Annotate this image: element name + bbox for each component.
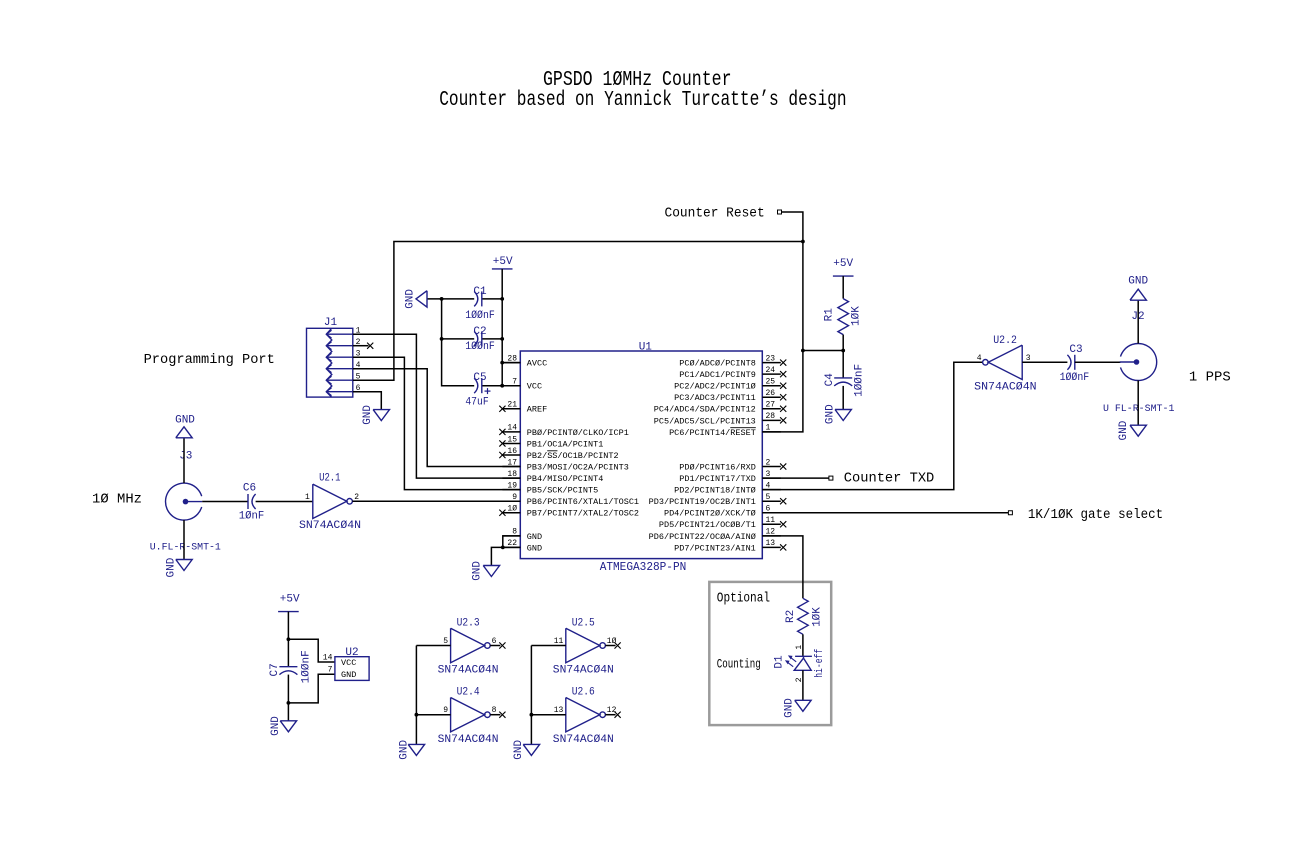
- connector J1 pin sawtooth: [326, 328, 332, 397]
- wire RESET vertical to U1 pin1: [762, 242, 803, 432]
- wire U2 GND pin7 to C7 bottom node: [288, 674, 335, 703]
- svg-text:11: 11: [766, 516, 776, 525]
- svg-text:7: 7: [328, 666, 333, 675]
- open square on Counter TXD label: [829, 476, 833, 480]
- svg-text:14: 14: [507, 424, 517, 433]
- wire U1 TXD pin3 to label: [762, 477, 829, 479]
- svg-text:Counting: Counting: [717, 658, 761, 672]
- svg-text:1ØK: 1ØK: [850, 306, 862, 326]
- wire U1 GND to ground symbol: [491, 547, 502, 565]
- svg-text:11: 11: [554, 637, 564, 646]
- pin 1 (PC6/PCINT14/RESET) of U1: [669, 424, 781, 438]
- svg-text:R1: R1: [823, 308, 835, 322]
- svg-text:GND: GND: [175, 414, 195, 426]
- resistor R1: [838, 299, 849, 335]
- connector J2 BNC body: [1120, 344, 1157, 381]
- wire J1 pin3 to U1 SCK pin19: [353, 357, 521, 489]
- svg-text:1ØØnF: 1ØØnF: [1060, 372, 1090, 384]
- svg-text:47uF: 47uF: [465, 397, 488, 409]
- wire J1 pin1 to U1 MISO pin18: [353, 334, 521, 478]
- svg-text:U1: U1: [639, 342, 653, 354]
- pin 21 (AREF) of U1: [499, 401, 547, 415]
- wire spare inverter inputs to ground: [415, 646, 417, 745]
- svg-text:U2.2: U2.2: [993, 335, 1017, 347]
- junction +5V rail at VCC: [500, 384, 504, 388]
- wire +5V to C7 node: [287, 612, 289, 640]
- svg-text:GND: GND: [472, 561, 484, 581]
- svg-text:GND: GND: [270, 716, 282, 736]
- wire Counter Reset label to RESET vertical: [782, 212, 803, 242]
- no-connect X on J1 pin2: [353, 343, 374, 349]
- svg-text:PD5/PCINT21/OCØB/T1: PD5/PCINT21/OCØB/T1: [659, 520, 756, 530]
- svg-text:U2.5: U2.5: [572, 617, 595, 629]
- svg-text:Counter TXD: Counter TXD: [844, 471, 935, 486]
- ground symbol below J2: [1130, 425, 1146, 436]
- wire J1 pin6 to ground: [353, 392, 382, 410]
- resistor R2: [798, 598, 809, 634]
- svg-text:1Ø MHz: 1Ø MHz: [92, 493, 142, 508]
- svg-text:8: 8: [492, 706, 497, 715]
- capacitor C4: [834, 378, 852, 386]
- pin 7 (GND) of U2: [328, 666, 357, 681]
- svg-text:PCØ/ADCØ/PCINT8: PCØ/ADCØ/PCINT8: [679, 359, 756, 369]
- svg-text:1ØK: 1ØK: [812, 607, 824, 627]
- svg-text:PC1/ADC1/PCINT9: PC1/ADC1/PCINT9: [679, 370, 756, 380]
- pin 4 of J1: [326, 361, 360, 373]
- pin 6 of J1: [326, 384, 360, 396]
- IC U2 power unit body: [335, 657, 369, 681]
- svg-text:+5V: +5V: [833, 258, 853, 270]
- svg-text:SN74ACØ4N: SN74ACØ4N: [974, 382, 1036, 394]
- svg-text:U2.6: U2.6: [572, 687, 595, 699]
- pin 13 (PD7/PCINT23/AIN1) of U1: [674, 539, 786, 553]
- capacitor C6: [248, 494, 256, 509]
- svg-text:1 PPS: 1 PPS: [1189, 370, 1231, 385]
- wire J2 bottom to ground: [1137, 381, 1139, 426]
- svg-text:1Ø: 1Ø: [607, 637, 617, 646]
- wire J1 pin5 to RESET net: [353, 242, 803, 381]
- svg-text:PD1/PCINT17/TXD: PD1/PCINT17/TXD: [679, 474, 756, 484]
- wire C5 row right to U1 VCC: [482, 385, 521, 387]
- ground symbol below C4: [835, 410, 851, 421]
- wire U1 PD6 pin12 to R2: [762, 536, 803, 598]
- svg-text:15: 15: [507, 435, 517, 444]
- svg-text:GND: GND: [527, 532, 542, 542]
- svg-text:C6: C6: [243, 483, 256, 495]
- svg-text:PDØ/PCINT16/RXD: PDØ/PCINT16/RXD: [679, 462, 756, 472]
- wire C3 to J2: [1075, 361, 1121, 363]
- ground symbol below D1: [795, 700, 811, 711]
- svg-text:27: 27: [766, 401, 776, 410]
- LED D1: [785, 655, 812, 670]
- svg-text:SN74ACØ4N: SN74ACØ4N: [299, 520, 361, 532]
- ground symbol above J2 (up): [1130, 289, 1146, 300]
- wire +5V to R1: [842, 276, 844, 299]
- wire R2 to D1: [802, 634, 804, 656]
- capacitor C3: [1067, 355, 1074, 370]
- ground symbol below J3: [176, 560, 192, 571]
- svg-text:PBØ/PCINTØ/CLKO/ICP1: PBØ/PCINTØ/CLKO/ICP1: [527, 428, 629, 438]
- svg-text:PB7/PCINT7/XTAL2/TOSC2: PB7/PCINT7/XTAL2/TOSC2: [527, 509, 639, 519]
- pin 2 of J1: [326, 338, 360, 350]
- power symbol +5V above C1: [492, 268, 513, 270]
- svg-text:1K/1ØK gate select: 1K/1ØK gate select: [1028, 508, 1163, 523]
- ground symbol left of C1: [416, 291, 427, 307]
- svg-text:PD6/PCINT22/OCØA/AINØ: PD6/PCINT22/OCØA/AINØ: [649, 532, 756, 542]
- svg-text:GND: GND: [165, 557, 177, 577]
- wire node to C4: [842, 351, 844, 378]
- svg-text:PB4/MISO/PCINT4: PB4/MISO/PCINT4: [527, 474, 604, 484]
- ground symbol below spare inverters: [408, 744, 424, 755]
- svg-text:26: 26: [766, 389, 776, 398]
- optional group box: [709, 582, 831, 725]
- wire input of U2.4: [416, 714, 450, 716]
- svg-text:hi-eff: hi-eff: [814, 649, 826, 678]
- connector J3 BNC body: [166, 483, 203, 520]
- pin 11 (PD5/PCINT21/OC0B/T1) of U1: [659, 516, 786, 530]
- pin 3 (PD1/PCINT17/TXD) of U1: [679, 470, 781, 484]
- inverter U2.3: [451, 628, 491, 662]
- svg-text:GND: GND: [1128, 275, 1148, 287]
- wire ground rail left of caps: [427, 298, 474, 300]
- wire J3 to C6: [202, 501, 248, 503]
- svg-text:1ØØnF: 1ØØnF: [465, 341, 495, 353]
- wire +5V rail vertical: [501, 269, 503, 386]
- pin 3 of J1: [326, 350, 360, 362]
- svg-text:Counter Reset: Counter Reset: [665, 207, 765, 222]
- wire U1 INT0 pin4 to U2.2 output: [762, 362, 982, 489]
- svg-text:PD7/PCINT23/AIN1: PD7/PCINT23/AIN1: [674, 543, 756, 553]
- pin 5 of J1: [326, 373, 360, 385]
- junction on RESET vertical at R1 branch: [801, 349, 805, 353]
- power symbol +5V above R1: [833, 275, 854, 277]
- svg-text:R2: R2: [785, 610, 797, 623]
- wire C6 to U2.1 input: [256, 501, 313, 503]
- svg-text:PC2/ADC2/PCINT1Ø: PC2/ADC2/PCINT1Ø: [674, 382, 756, 392]
- svg-text:GND: GND: [1118, 420, 1130, 440]
- svg-text:GND: GND: [341, 670, 356, 680]
- wire input of U2.6: [531, 714, 565, 716]
- svg-text:U.FL-R-SMT-1: U.FL-R-SMT-1: [150, 542, 221, 554]
- junction C7 top node: [287, 637, 291, 641]
- svg-text:GND: GND: [527, 543, 542, 553]
- svg-text:D1: D1: [773, 655, 785, 669]
- junction +5V rail at AVCC: [500, 361, 504, 365]
- svg-text:PB5/SCK/PCINT5: PB5/SCK/PCINT5: [527, 486, 598, 496]
- no-connect X on output of U2.3: [490, 642, 505, 648]
- svg-text:13: 13: [766, 539, 776, 548]
- wire C2 row right: [482, 338, 502, 340]
- junction C7 bottom node: [287, 701, 291, 705]
- svg-text:1ØØnF: 1ØØnF: [854, 364, 866, 397]
- wire C7 bottom: [287, 675, 289, 703]
- ground symbol below spare inverters: [523, 744, 539, 755]
- pin 10 (PB7/PCINT7/XTAL2/TOSC2) of U1: [499, 505, 639, 519]
- wire ground rail vertical: [442, 299, 475, 386]
- wire J2 top to ground: [1137, 300, 1139, 343]
- svg-text:Optional: Optional: [717, 590, 770, 606]
- pin 9 (PB6/PCINT6/XTAL1/TOSC1) of U1: [502, 493, 639, 507]
- no-connect X on output of U2.5: [605, 642, 620, 648]
- wire U1 T0 pin6 to label: [762, 512, 1008, 514]
- inverter U2.5: [566, 628, 606, 662]
- pin 6 (PD4/PCINT20/XCK/T0) of U1: [664, 505, 781, 519]
- junction +5V rail at C2: [500, 337, 504, 341]
- svg-text:AVCC: AVCC: [527, 359, 547, 369]
- svg-text:PD2/PCINT18/INTØ: PD2/PCINT18/INTØ: [674, 486, 756, 496]
- svg-text:PC5/ADC5/SCL/PCINT13: PC5/ADC5/SCL/PCINT13: [654, 416, 756, 426]
- svg-text:PD4/PCINT2Ø/XCK/TØ: PD4/PCINT2Ø/XCK/TØ: [664, 509, 756, 519]
- pin 15 (PB1/OC1A/PCINT1) of U1: [499, 435, 603, 449]
- svg-text:Counter based on Yannick Turca: Counter based on Yannick Turcatte’s desi…: [439, 89, 846, 112]
- svg-text:J3: J3: [179, 450, 192, 462]
- svg-text:PB3/MOSI/OC2A/PCINT3: PB3/MOSI/OC2A/PCINT3: [527, 462, 629, 472]
- pin 14 (VCC) of U2: [323, 653, 357, 668]
- junction spare inverter inputs: [415, 713, 419, 717]
- pin 28 (AVCC) of U1: [502, 354, 547, 368]
- svg-text:1: 1: [305, 493, 310, 502]
- svg-text:SN74ACØ4N: SN74ACØ4N: [553, 665, 614, 677]
- inverter U2.6: [566, 698, 606, 732]
- svg-text:GND: GND: [513, 740, 525, 760]
- inverter U2.2: [983, 345, 1023, 379]
- svg-text:1ØnF: 1ØnF: [239, 510, 264, 522]
- pin 12 (PD6/PCINT22/OC0A/AIN0) of U1: [649, 528, 781, 542]
- svg-text:U2.1: U2.1: [319, 472, 341, 484]
- junction ground rail at C2: [440, 337, 444, 341]
- svg-text:14: 14: [323, 653, 333, 662]
- pin 24 (PC1/ADC1/PCINT9) of U1: [679, 366, 786, 380]
- wire C2 row left: [442, 338, 475, 340]
- pin 1 of J1: [326, 327, 360, 339]
- inverter U2.4: [451, 698, 491, 732]
- wire C7 top: [287, 639, 289, 666]
- svg-text:2: 2: [766, 458, 771, 467]
- svg-text:SN74ACØ4N: SN74ACØ4N: [438, 734, 499, 746]
- svg-text:1ØØnF: 1ØØnF: [465, 310, 495, 322]
- svg-text:GND: GND: [398, 740, 410, 760]
- svg-text:PB2/SS/OC1B/PCINT2: PB2/SS/OC1B/PCINT2: [527, 451, 619, 461]
- svg-text:23: 23: [766, 354, 776, 363]
- wire R1 to C4 node: [842, 335, 844, 351]
- svg-text:GND: GND: [362, 405, 374, 425]
- wire U2.1 output to U1 PB6 pin9: [352, 500, 520, 502]
- svg-text:5: 5: [766, 493, 771, 502]
- pin 25 (PC2/ADC2/PCINT10) of U1: [674, 378, 786, 392]
- pin 4 (PD2/PCINT18/INT0) of U1: [674, 481, 781, 495]
- wire U2.2 input to C3: [1022, 361, 1067, 363]
- open square on gate select label: [1008, 511, 1012, 515]
- junction R1/C4 node: [841, 349, 845, 353]
- power symbol +5V above C7: [278, 611, 299, 613]
- svg-text:13: 13: [554, 706, 564, 715]
- svg-text:C3: C3: [1069, 344, 1082, 356]
- wire RESET net to R1/C4 node: [803, 350, 843, 352]
- pin 22 (GND) of U1: [502, 539, 542, 553]
- pin 27 (PC4/ADC4/SDA/PCINT12) of U1: [654, 401, 787, 415]
- open square on Counter Reset label: [778, 210, 782, 214]
- svg-text:GND: GND: [404, 289, 416, 309]
- svg-text:PC3/ADC3/PCINT11: PC3/ADC3/PCINT11: [674, 393, 756, 403]
- wire C7 node to U2 VCC pin14: [288, 639, 335, 662]
- wire AVCC row: [502, 362, 520, 364]
- wire C1 row right: [482, 298, 502, 300]
- pin 19 (PB5/SCK/PCINT5) of U1: [502, 481, 598, 495]
- svg-text:C1: C1: [473, 286, 487, 298]
- capacitor C7: [279, 667, 297, 675]
- svg-text:+5V: +5V: [493, 256, 513, 268]
- svg-text:SN74ACØ4N: SN74ACØ4N: [553, 734, 614, 746]
- svg-text:1ØØnF: 1ØØnF: [300, 650, 312, 683]
- svg-text:12: 12: [607, 706, 617, 715]
- pin 17 (PB3/MOSI/OC2A/PCINT3) of U1: [502, 458, 628, 472]
- pin 5 (PD3/PCINT19/OC2B/INT1) of U1: [649, 493, 787, 507]
- pin 18 (PB4/MISO/PCINT4) of U1: [502, 470, 603, 484]
- svg-text:1: 1: [795, 645, 804, 650]
- wire input of U2.5: [531, 645, 565, 647]
- no-connect X on output of U2.4: [490, 712, 505, 718]
- capacitor C2: [474, 331, 482, 346]
- wire J3 bottom to ground: [183, 520, 185, 559]
- svg-text:24: 24: [766, 366, 776, 375]
- svg-text:2: 2: [354, 493, 359, 502]
- svg-text:C7: C7: [269, 663, 281, 676]
- plus mark of C5: [485, 388, 491, 394]
- capacitor C1: [474, 291, 482, 306]
- svg-text:U2.4: U2.4: [457, 687, 480, 699]
- svg-text:28: 28: [766, 412, 776, 421]
- wire U1 GND pin8 to pin22: [503, 536, 521, 548]
- svg-text:C5: C5: [473, 372, 486, 384]
- junction RESET net: [801, 240, 805, 244]
- pin 14 (PB0/PCINT0/CLKO/ICP1) of U1: [499, 424, 629, 438]
- ground symbol below U1: [483, 566, 499, 577]
- svg-text:VCC: VCC: [527, 382, 542, 392]
- wire J1 pin4 to U1 MOSI pin17: [353, 369, 521, 467]
- pin 8 (GND) of U1: [502, 528, 542, 542]
- junction +5V rail at C1: [500, 297, 504, 301]
- svg-text:PD3/PCINT19/OC2B/INT1: PD3/PCINT19/OC2B/INT1: [649, 497, 756, 507]
- wire C4 to ground: [842, 386, 844, 410]
- svg-text:AREF: AREF: [527, 405, 547, 415]
- svg-text:21: 21: [507, 401, 517, 410]
- svg-text:VCC: VCC: [341, 658, 356, 668]
- pin 7 (VCC) of U1: [502, 378, 542, 392]
- no-connect X on output of U2.6: [605, 712, 620, 718]
- svg-text:GND: GND: [783, 698, 795, 718]
- svg-text:J1: J1: [324, 317, 338, 329]
- connector J1 body: [307, 328, 353, 397]
- wire C7 node to ground: [287, 703, 289, 721]
- svg-text:25: 25: [766, 378, 776, 387]
- svg-text:16: 16: [507, 447, 517, 456]
- IC U1 ATMEGA328P-PN body: [520, 351, 762, 559]
- ground symbol below J1 pin6: [373, 410, 389, 421]
- svg-text:PB1/OC1A/PCINT1: PB1/OC1A/PCINT1: [527, 439, 604, 449]
- wire D1 to ground: [802, 670, 804, 700]
- svg-text:PC4/ADC4/SDA/PCINT12: PC4/ADC4/SDA/PCINT12: [654, 405, 756, 415]
- capacitor C5 polarized: [474, 378, 482, 393]
- ground symbol above J3 (up): [176, 427, 192, 438]
- svg-text:+5V: +5V: [280, 593, 300, 605]
- pin 2 (PD0/PCINT16/RXD) of U1: [679, 458, 786, 472]
- wire spare inverter inputs to ground: [530, 646, 532, 745]
- pin 26 (PC3/ADC3/PCINT11) of U1: [674, 389, 786, 403]
- svg-text:U2.3: U2.3: [457, 617, 480, 629]
- pin 16 (PB2/SS/OC1B/PCINT2) of U1: [499, 447, 618, 461]
- svg-text:9: 9: [443, 706, 448, 715]
- svg-text:ATMEGA328P-PN: ATMEGA328P-PN: [600, 561, 687, 574]
- svg-text:SN74ACØ4N: SN74ACØ4N: [438, 665, 499, 677]
- pin 28 (PC5/ADC5/SCL/PCINT13) of U1: [654, 412, 787, 426]
- ground symbol below C7: [280, 721, 296, 732]
- svg-text:PC6/PCINT14/RESET: PC6/PCINT14/RESET: [669, 428, 756, 438]
- svg-text:1Ø: 1Ø: [507, 505, 517, 514]
- junction ground rail at C1: [440, 297, 444, 301]
- svg-text:C2: C2: [473, 326, 486, 338]
- junction U1 GND pins: [501, 546, 505, 550]
- svg-text:6: 6: [492, 637, 497, 646]
- svg-text:C4: C4: [824, 373, 836, 387]
- svg-text:GND: GND: [825, 404, 837, 424]
- junction spare inverter inputs: [530, 713, 534, 717]
- pin 23 (PC0/ADC0/PCINT8) of U1: [679, 354, 786, 368]
- svg-text:Programming Port: Programming Port: [144, 353, 275, 368]
- svg-text:5: 5: [443, 637, 448, 646]
- svg-text:PB6/PCINT6/XTAL1/TOSC1: PB6/PCINT6/XTAL1/TOSC1: [527, 497, 639, 507]
- wire input of U2.3: [416, 645, 450, 647]
- svg-text:4: 4: [977, 354, 982, 363]
- inverter U2.1: [313, 484, 353, 518]
- wire J3 top to ground: [183, 438, 185, 483]
